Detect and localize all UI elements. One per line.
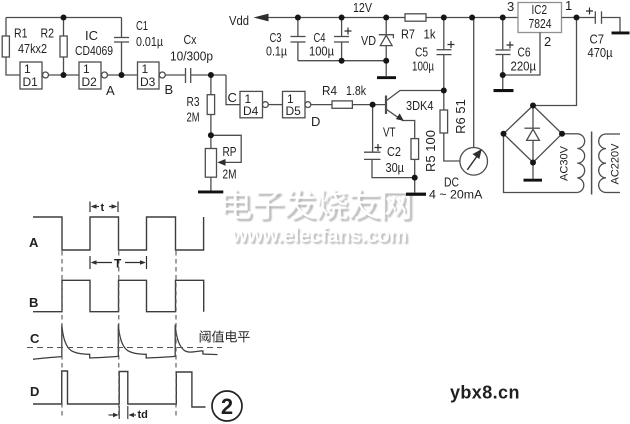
svg-text:t: t bbox=[101, 202, 105, 214]
inverter D4 bbox=[240, 91, 263, 117]
svg-text:T: T bbox=[114, 257, 122, 271]
wire R2 bottom bbox=[63, 57, 65, 75]
svg-text:1: 1 bbox=[83, 62, 90, 76]
resistor R4 bbox=[332, 101, 352, 108]
svg-text:Cx: Cx bbox=[184, 32, 197, 47]
resistor R2 bbox=[60, 36, 67, 57]
IC2 7824 box bbox=[518, 3, 562, 33]
capacitor C5 bbox=[443, 18, 445, 50]
wire Cx to node C bbox=[191, 74, 226, 76]
svg-text:1.8k: 1.8k bbox=[346, 83, 366, 98]
svg-text:47kx2: 47kx2 bbox=[18, 41, 47, 56]
junction node (502.75,75) bbox=[500, 72, 506, 78]
svg-text:B: B bbox=[165, 82, 174, 97]
junction node (297.9,17.5) bbox=[295, 15, 301, 21]
svg-text:R7: R7 bbox=[401, 27, 415, 42]
potentiometer RP bbox=[205, 149, 216, 178]
svg-text:0.01µ: 0.01µ bbox=[136, 34, 163, 49]
svg-text:100µ: 100µ bbox=[309, 44, 334, 59]
resistor R3 bbox=[210, 75, 212, 95]
svg-text:VD: VD bbox=[361, 33, 376, 48]
junction node (502.75,17.5) bbox=[500, 15, 506, 21]
svg-text:R6 51: R6 51 bbox=[453, 99, 468, 134]
wire D4 to D5 bbox=[268, 104, 282, 106]
svg-text:1: 1 bbox=[142, 62, 149, 76]
junction node (386.2,60.7) bbox=[383, 58, 389, 64]
svg-text:7824: 7824 bbox=[529, 16, 552, 31]
capacitor C7 bbox=[594, 11, 596, 23]
svg-text:R3: R3 bbox=[187, 94, 200, 109]
waveform C bbox=[33, 325, 218, 360]
meter DC bbox=[460, 148, 488, 176]
svg-text:A: A bbox=[106, 83, 115, 98]
svg-text:D4: D4 bbox=[243, 104, 259, 118]
transistor emitter bbox=[387, 110, 402, 120]
junction node (533,162.5) bbox=[530, 160, 536, 166]
junction node (443.8,90.5) bbox=[441, 88, 447, 94]
transformer core bbox=[591, 132, 593, 195]
transistor Q VT base bar bbox=[385, 96, 387, 115]
capacitor Cx bbox=[185, 68, 187, 83]
svg-text:VT: VT bbox=[383, 125, 396, 140]
ground below bridge bbox=[524, 179, 543, 182]
capacitor C4 bbox=[341, 18, 343, 37]
svg-text:D2: D2 bbox=[82, 75, 98, 89]
wire R2 top bbox=[63, 18, 65, 37]
threshold dashed line bbox=[27, 347, 222, 349]
wire D5 out to R4 bbox=[311, 104, 332, 106]
gate labels bbox=[23, 62, 302, 118]
svg-text:220µ: 220µ bbox=[511, 59, 537, 74]
wire D1 out to D2 bbox=[49, 74, 80, 76]
svg-text:CD4069: CD4069 bbox=[75, 43, 113, 58]
bridge rectifier diamond bbox=[504, 106, 563, 163]
td dimension bbox=[109, 406, 137, 419]
capacitor C2 bbox=[372, 105, 374, 152]
svg-text:3DK4: 3DK4 bbox=[406, 98, 434, 113]
bridge right to transformer bbox=[562, 133, 577, 135]
svg-text:www.elecfans.com: www.elecfans.com bbox=[231, 225, 407, 247]
svg-text:RP: RP bbox=[223, 144, 237, 159]
circled 2 bbox=[212, 391, 242, 421]
junction node (503.5,133.8) bbox=[501, 131, 507, 137]
IC2 pin2 wire bbox=[503, 33, 540, 76]
junction node (372.6,104.6) bbox=[370, 102, 376, 108]
svg-text:td: td bbox=[138, 409, 148, 421]
waveform B bbox=[33, 280, 204, 311]
t dimension bbox=[90, 202, 118, 213]
junction node (341.6,60.7) bbox=[339, 58, 345, 64]
RP wiper arrowhead bbox=[217, 159, 225, 166]
transformer secondary winding bbox=[577, 134, 584, 193]
plus of C6 bbox=[507, 42, 514, 49]
svg-text:4 ~ 20mA: 4 ~ 20mA bbox=[429, 188, 483, 202]
svg-text:12V: 12V bbox=[353, 0, 372, 15]
wire left drop to D1 input bbox=[5, 18, 7, 37]
meter DC wire bbox=[473, 18, 475, 148]
svg-text:C2: C2 bbox=[387, 144, 401, 159]
junction node (533,105.5) bbox=[530, 103, 536, 109]
inverter D1 bbox=[20, 62, 42, 89]
lower rail C3-VD bbox=[298, 60, 386, 62]
capacitor C3 bbox=[297, 18, 299, 37]
junction node (210.9,135.3) bbox=[208, 132, 214, 138]
svg-text:30µ: 30µ bbox=[386, 160, 405, 175]
svg-text:Vdd: Vdd bbox=[229, 13, 249, 28]
wire top-left rail bbox=[6, 17, 122, 19]
svg-text:2M: 2M bbox=[187, 110, 200, 125]
labels middle/right bbox=[229, 0, 622, 202]
transistor collector bbox=[387, 91, 444, 101]
plus signs bbox=[345, 8, 594, 152]
svg-text:R1: R1 bbox=[14, 26, 28, 41]
svg-text:2M: 2M bbox=[223, 167, 237, 182]
junction node (472.1,17.5) bbox=[469, 15, 475, 21]
svg-text:2: 2 bbox=[544, 34, 551, 49]
zener VD bbox=[385, 18, 387, 35]
ground below RP bbox=[198, 191, 223, 194]
wire node down to D4 bbox=[226, 75, 240, 105]
svg-text:A: A bbox=[29, 235, 39, 250]
capacitor C6 bbox=[502, 18, 504, 50]
emitter arrowhead bbox=[396, 113, 404, 121]
svg-text:B: B bbox=[29, 295, 38, 310]
svg-text:C: C bbox=[228, 90, 237, 105]
resistor R6 bbox=[443, 91, 445, 111]
dashed timing verticals bbox=[62, 251, 176, 418]
svg-text:0.1µ: 0.1µ bbox=[266, 44, 287, 59]
resistor R1 bbox=[2, 36, 9, 57]
inverter D2 bbox=[79, 62, 101, 89]
bridge inner diode bbox=[532, 108, 534, 128]
Vdd rail bbox=[268, 17, 405, 19]
svg-text:R4: R4 bbox=[322, 83, 337, 98]
svg-text:470µ: 470µ bbox=[588, 45, 613, 60]
threshold label bbox=[200, 330, 250, 342]
wire D3 out bbox=[165, 74, 185, 76]
svg-text:C: C bbox=[30, 331, 40, 346]
junction node (63.5,75) bbox=[61, 72, 67, 78]
plus of C7 bbox=[586, 8, 593, 15]
svg-text:R2: R2 bbox=[41, 26, 55, 41]
svg-text:D: D bbox=[30, 384, 39, 399]
svg-text:D1: D1 bbox=[23, 75, 39, 89]
watermark elecfans bbox=[223, 189, 412, 249]
wire R4 to base bbox=[352, 104, 385, 106]
waveform labels bbox=[29, 235, 40, 399]
svg-text:ybx8.cn: ybx8.cn bbox=[450, 383, 520, 403]
labels top-left bbox=[14, 18, 366, 182]
plus of C4 bbox=[345, 28, 352, 35]
svg-text:D: D bbox=[311, 114, 320, 129]
junction node (576.5,17.5) bbox=[574, 15, 580, 21]
junction node (443.8,17.5) bbox=[441, 15, 447, 21]
ground below C6 bbox=[494, 89, 514, 92]
svg-text:100µ: 100µ bbox=[412, 59, 434, 74]
transformer primary winding bbox=[599, 134, 606, 193]
ground below R5 node bbox=[406, 193, 426, 196]
waveform D bbox=[33, 371, 206, 407]
capacitor C1 bbox=[121, 18, 123, 38]
junction node (386.2,17.5) bbox=[383, 15, 389, 21]
svg-text:3: 3 bbox=[507, 0, 514, 14]
resistor R7 bbox=[405, 14, 426, 21]
junction node (63.5,17.5) bbox=[61, 15, 67, 21]
junction node (414.7,177.6) bbox=[412, 175, 418, 181]
svg-text:C5: C5 bbox=[415, 45, 428, 60]
plus of C2 bbox=[375, 144, 382, 151]
svg-text:IC2: IC2 bbox=[532, 2, 548, 17]
svg-text:IC: IC bbox=[85, 28, 98, 43]
meter needle bbox=[467, 150, 481, 170]
waveform A bbox=[33, 217, 204, 250]
wire D2 out to D3 bbox=[108, 74, 138, 76]
svg-text:1: 1 bbox=[565, 0, 572, 13]
T dimension bbox=[90, 256, 147, 269]
resistor R5 bbox=[411, 139, 419, 160]
junction node (341.6,17.5) bbox=[339, 15, 345, 21]
svg-text:D3: D3 bbox=[140, 75, 156, 89]
bridge bottom to ground bbox=[532, 163, 534, 179]
junction node (562,133.8) bbox=[559, 131, 565, 137]
svg-text:C6: C6 bbox=[518, 45, 531, 60]
svg-text:R5 100: R5 100 bbox=[423, 130, 438, 172]
svg-text:1k: 1k bbox=[424, 27, 436, 42]
inverter D3 bbox=[138, 62, 160, 89]
Vdd arrow bbox=[254, 14, 269, 22]
plus of C5 bbox=[448, 41, 455, 48]
node dots bbox=[61, 15, 580, 181]
ground below VD bbox=[377, 76, 396, 79]
svg-text:C1: C1 bbox=[136, 18, 148, 33]
junction node (210.9,75) bbox=[208, 72, 214, 78]
inverter D5 bbox=[283, 91, 306, 117]
bridge left drop + bottom rail bbox=[504, 134, 578, 193]
wire to bridge top bbox=[533, 18, 577, 106]
svg-text:10/300p: 10/300p bbox=[170, 49, 213, 64]
svg-text:D5: D5 bbox=[286, 104, 302, 118]
svg-text:1: 1 bbox=[24, 62, 31, 76]
svg-text:2: 2 bbox=[221, 394, 233, 419]
junction node (121.5,75) bbox=[119, 72, 125, 78]
ground right of C7 bbox=[612, 32, 630, 35]
svg-text:AC30V: AC30V bbox=[559, 145, 571, 181]
rail IC2 to C7 bbox=[562, 17, 596, 19]
svg-text:AC220V: AC220V bbox=[610, 143, 622, 185]
